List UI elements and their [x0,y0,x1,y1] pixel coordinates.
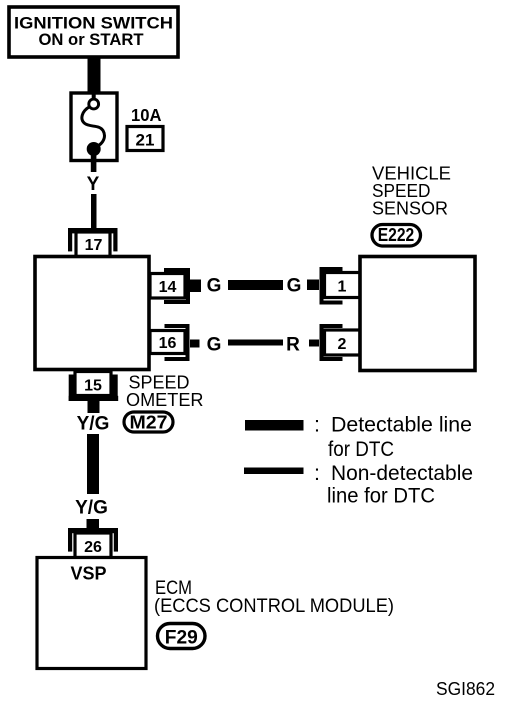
figure id SGI862 [436,679,495,699]
svg-text:line for DTC: line for DTC [327,484,435,508]
fuse number box 21 [127,127,163,151]
svg-text:OMETER: OMETER [126,389,204,410]
svg-text:2: 2 [338,336,347,353]
harness wire (ignition switch to fuse) [88,57,101,93]
pin 26 [75,533,111,558]
svg-text:14: 14 [159,279,177,296]
detectable wire 14 to 1 [228,280,283,290]
vehicle speed sensor label [372,163,451,219]
pin 14 [150,274,185,299]
svg-text:Y/G: Y/G [75,498,108,519]
svg-text:10A: 10A [131,105,162,125]
pin 17 [76,232,110,257]
wire label G (right, pin 1) [287,276,302,297]
fuse rating label 10A [131,105,162,125]
connector bracket at pin 14 [164,270,188,302]
speedometer label [126,372,204,411]
wire label Y/G (upper) [77,414,110,435]
svg-text:15: 15 [84,378,102,395]
svg-text:G: G [207,276,222,297]
svg-text:Detectable line: Detectable line [331,413,472,437]
pin 2 [325,330,361,355]
pin 15 [75,372,111,396]
wire (fuse to speedometer pin 17) [91,194,97,229]
pin 26 terminal stub [87,519,100,530]
svg-text:VSP: VSP [70,564,106,584]
pin 1 terminal stub [307,280,319,291]
non-detectable wire 16 to 2 [228,340,283,346]
connector ref M27 [124,412,173,433]
svg-text:for DTC: for DTC [328,437,394,461]
svg-text:26: 26 [84,539,102,556]
pin 15 terminal stub [88,401,100,413]
wire label R (right, pin 2) [286,335,300,356]
wire label Y [87,174,100,195]
connector bracket at pin 2 [322,326,343,359]
svg-text:M27: M27 [130,413,168,433]
pin 16 terminal stub [190,340,200,348]
svg-text:SENSOR: SENSOR [372,198,448,219]
legend detectable line text [314,413,472,462]
svg-text:G: G [207,335,222,356]
legend non-detectable line text [314,461,473,508]
svg-text:21: 21 [136,131,155,150]
svg-text:Y/G: Y/G [77,414,110,435]
fuse F (10A) [71,93,117,172]
svg-text:16: 16 [159,335,177,352]
pin 16 [150,331,185,354]
svg-text:1: 1 [338,279,347,296]
svg-text:ON or START: ON or START [39,30,145,49]
wire label G (left, pin 14) [207,276,222,297]
ignition switch box [9,7,178,57]
pin 1 [325,273,361,298]
connector ref F29 [158,624,206,649]
legend detectable line sample [245,420,304,431]
svg-text:G: G [287,276,302,297]
svg-text:(ECCS CONTROL MODULE): (ECCS CONTROL MODULE) [154,596,394,617]
terminal name VSP [70,564,106,584]
svg-text:SGI862: SGI862 [436,679,495,699]
ECM label [154,578,394,617]
connector bracket at pin 17 [68,228,118,251]
connector bracket at pin 1 [322,269,343,303]
connector bracket at pin 16 [165,326,188,359]
connector bracket at pin 15 [69,375,119,402]
svg-text:R: R [286,335,300,356]
wire label G (left, pin 16) [207,335,222,356]
svg-text:Y: Y [87,174,100,195]
svg-text:E222: E222 [378,225,415,245]
legend non-detectable line sample [244,468,304,475]
pin 2 terminal stub [309,340,319,347]
detectable wire 15 to 26 [87,434,99,494]
svg-text:17: 17 [85,237,103,254]
svg-text:Non-detectable: Non-detectable [331,461,473,485]
wire label Y/G (lower) [75,498,108,519]
vehicle speed sensor box E222 [360,257,475,371]
svg-text:F29: F29 [165,628,198,649]
ECM box F29 [37,558,146,669]
pin 14 terminal stub [190,280,201,293]
svg-text::: : [314,413,320,437]
svg-text::: : [314,461,320,485]
connector bracket at pin 26 [68,528,118,552]
speedometer box M27 [35,257,149,370]
connector ref E222 [372,225,421,247]
